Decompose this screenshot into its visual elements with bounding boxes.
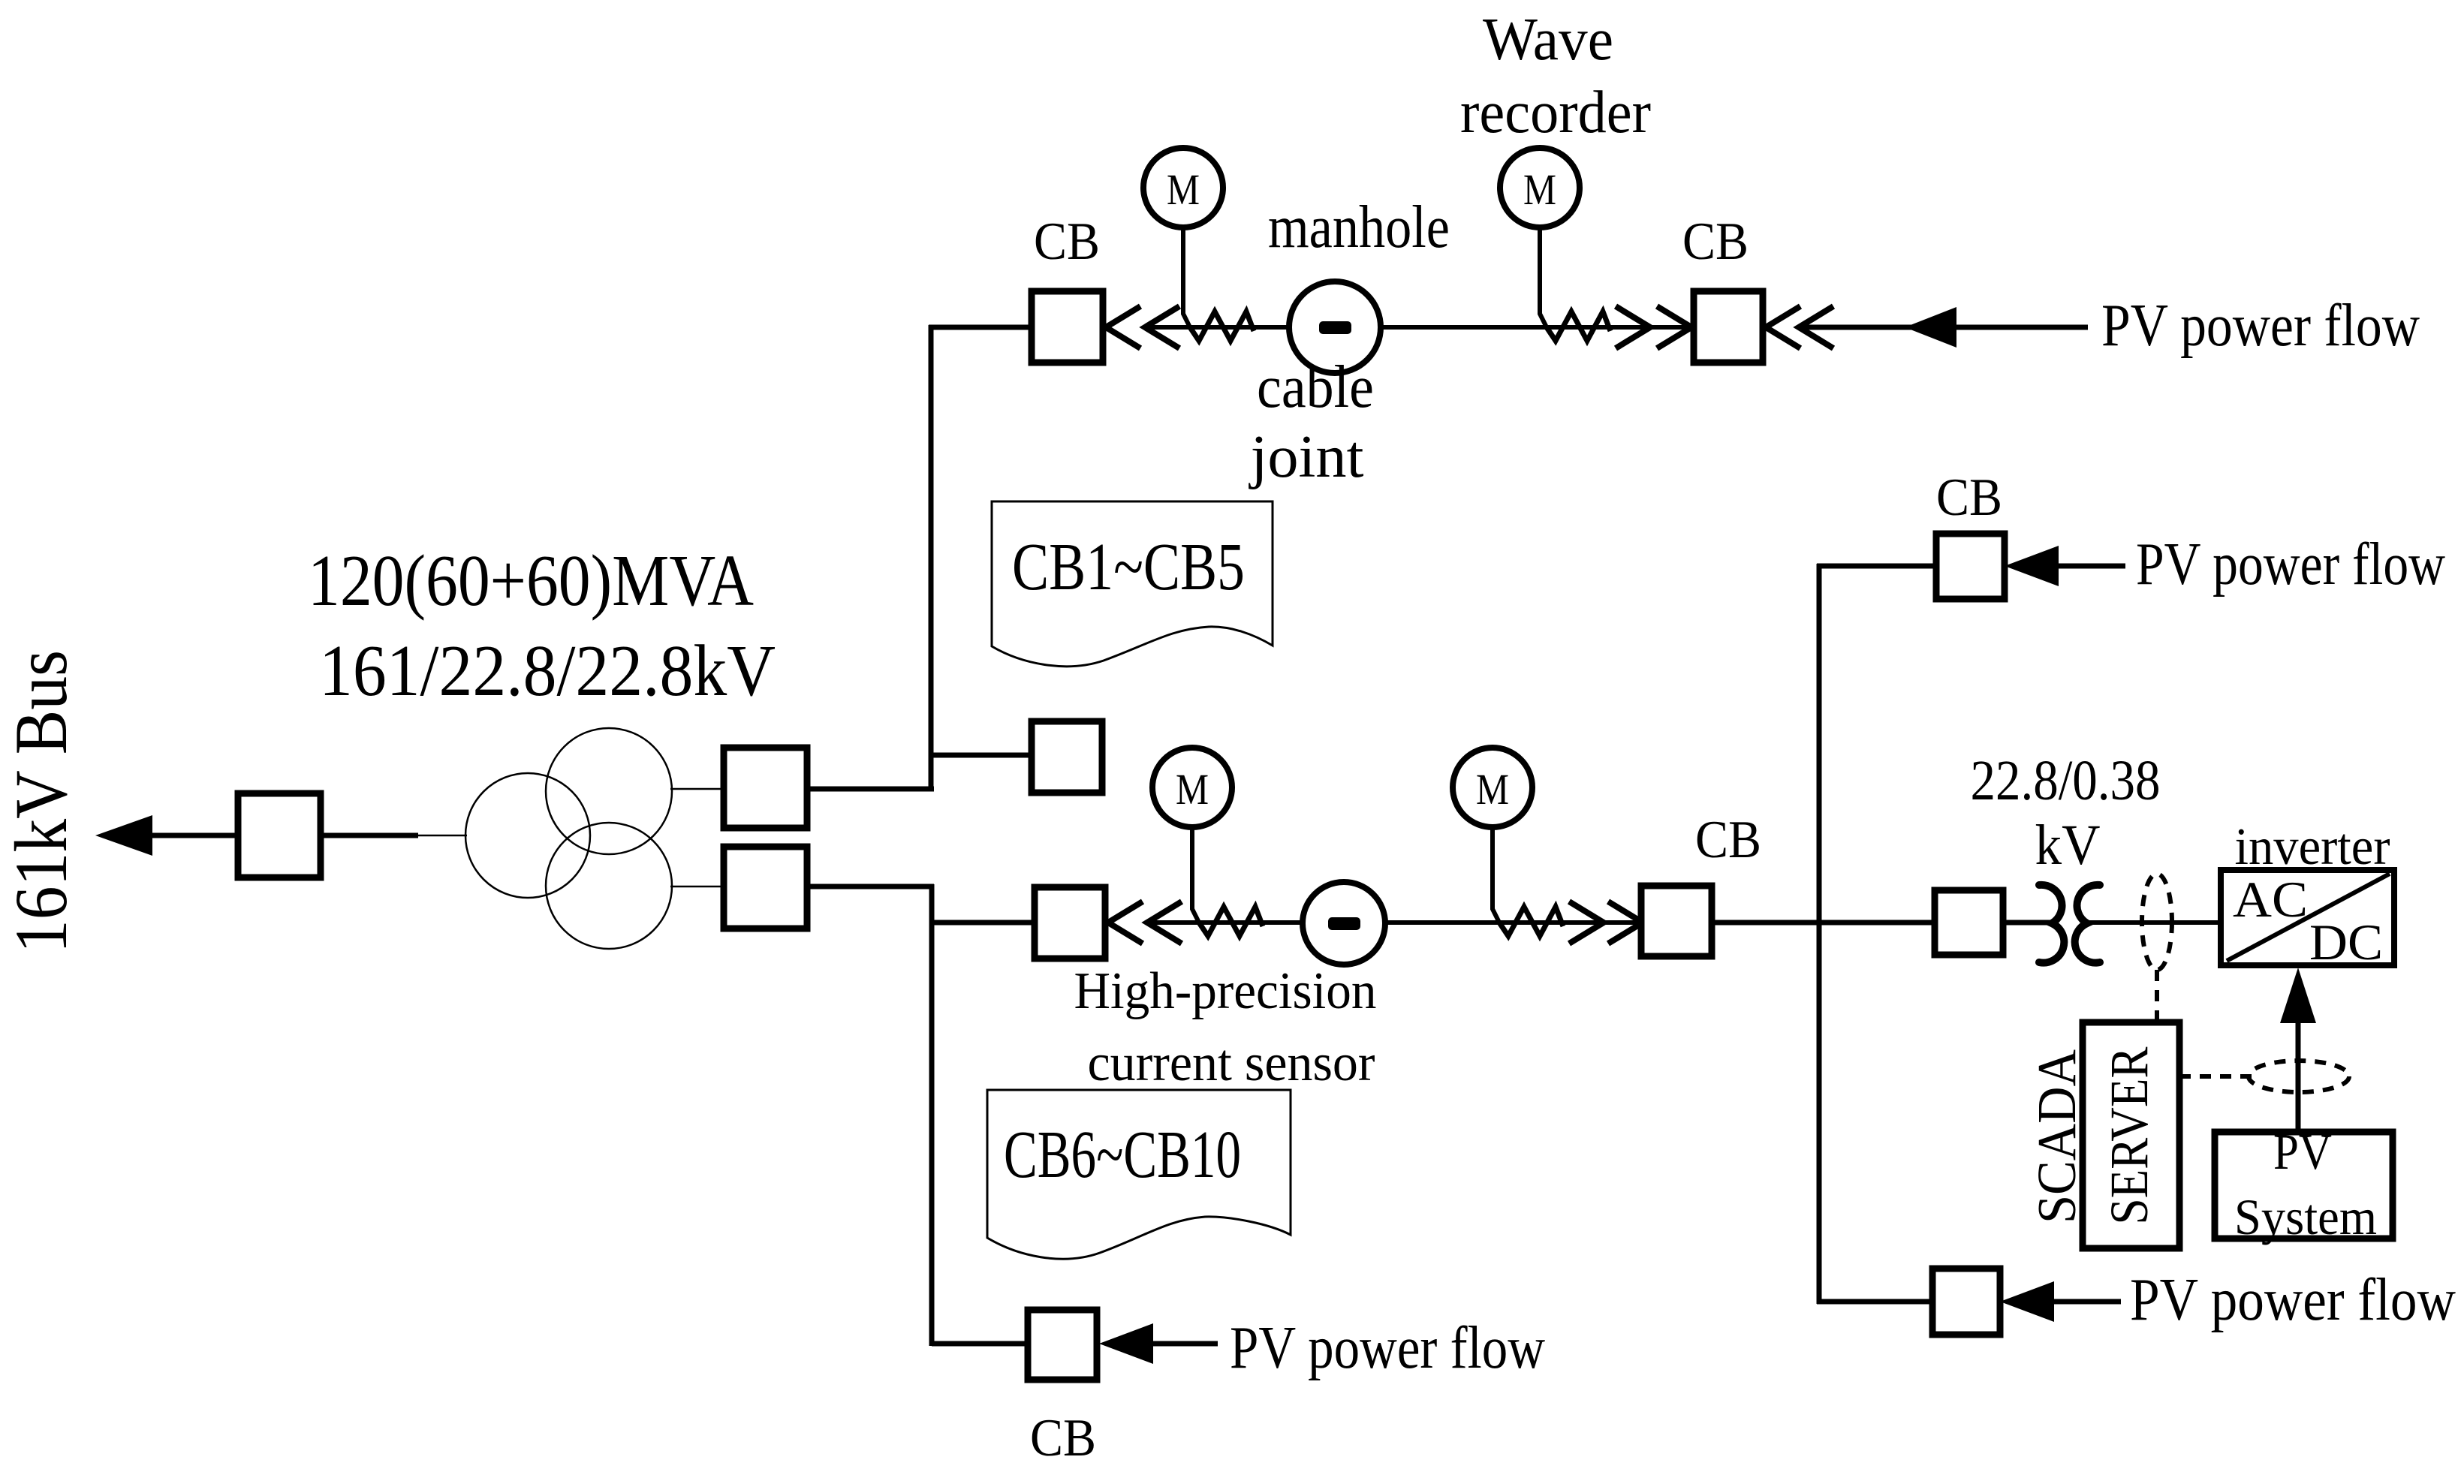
transformer T1 secondary winding 2 xyxy=(546,823,672,949)
wire xyxy=(321,833,418,838)
svg-text:manhole: manhole xyxy=(1268,194,1450,260)
svg-text:PV: PV xyxy=(2273,1123,2332,1180)
inverter diagonal xyxy=(2227,874,2390,961)
meter M4 xyxy=(1453,748,1532,827)
meter M3 xyxy=(1152,748,1232,827)
svg-text:22.8/0.38: 22.8/0.38 xyxy=(1971,749,2161,812)
arrowhead PV power flow bottom xyxy=(1099,1323,1153,1364)
circuit breaker CB feeder2 sending xyxy=(1035,887,1105,959)
dashed ellipse 2 xyxy=(2249,1061,2349,1092)
wire xyxy=(1151,1341,1218,1347)
svg-text:kV: kV xyxy=(2035,814,2101,877)
PV transformer winding right xyxy=(2075,885,2100,963)
svg-text:M: M xyxy=(1167,165,1200,214)
transformer T1 primary winding xyxy=(465,773,590,898)
svg-text:CB6~CB10: CB6~CB10 xyxy=(1004,1118,1241,1192)
meter M2 xyxy=(1500,148,1580,227)
PV System box xyxy=(2215,1132,2393,1239)
meter M1 stem xyxy=(1183,225,1190,327)
circuit breaker CB right upper xyxy=(1936,534,2005,599)
circuit breaker CB feeder1 receiving xyxy=(1694,291,1763,363)
chevron arrows >> xyxy=(1569,902,1643,944)
wire xyxy=(807,884,934,889)
wire xyxy=(1799,325,2088,330)
svg-text:CB: CB xyxy=(1034,212,1100,271)
arrowhead PV power flow top xyxy=(1905,307,1956,348)
wire (thin) xyxy=(670,886,724,888)
svg-text:Wave: Wave xyxy=(1483,7,1613,73)
svg-text:PV power flow: PV power flow xyxy=(2136,531,2445,598)
svg-text:joint: joint xyxy=(1248,424,1363,490)
wire top feeder xyxy=(1146,325,1694,330)
cable joint mark 2 xyxy=(1328,917,1360,930)
wire xyxy=(929,325,1032,330)
circuit breaker (22.8kV winding 2) xyxy=(724,847,807,929)
SCADA server box xyxy=(2083,1022,2179,1248)
CT dashed ellipse xyxy=(2142,874,2172,970)
wire middle feeder xyxy=(1149,920,1641,925)
wire xyxy=(807,787,934,792)
wire xyxy=(1712,920,2053,926)
svg-text:CB: CB xyxy=(1936,468,2002,527)
chevron arrows << xyxy=(1108,902,1182,944)
circuit breaker CB (PV step-up) xyxy=(1935,890,2003,955)
sensor zigzag 3 xyxy=(1199,907,1263,936)
wire trunk 2 xyxy=(929,884,935,1346)
note box CB6~CB10 xyxy=(987,1090,1291,1259)
svg-text:M: M xyxy=(1476,765,1509,814)
wire stub xyxy=(932,920,1035,926)
wire trunk 1 xyxy=(929,325,934,791)
wire xyxy=(932,1341,1028,1347)
svg-text:High-precision: High-precision xyxy=(1074,962,1377,1020)
svg-text:DC: DC xyxy=(2309,914,2383,971)
cable joint mark xyxy=(1319,321,1351,334)
chevron arrows << xyxy=(1106,306,1179,348)
arrowhead PV power flow right lower xyxy=(2000,1281,2054,1322)
svg-text:120(60+60)MVA: 120(60+60)MVA xyxy=(308,540,754,621)
circuit breaker CB bottom xyxy=(1028,1310,1097,1380)
svg-text:System: System xyxy=(2234,1188,2377,1245)
sensor zigzag 2 xyxy=(1547,312,1610,341)
svg-text:CB: CB xyxy=(1695,811,1761,869)
svg-text:PV power flow: PV power flow xyxy=(2130,1267,2456,1333)
svg-text:recorder: recorder xyxy=(1460,80,1651,146)
wire right bus vertical xyxy=(1817,564,1822,1304)
wire xyxy=(2056,564,2125,569)
wire xyxy=(147,833,238,838)
wire (thin) xyxy=(670,788,724,790)
svg-text:M: M xyxy=(1176,765,1209,814)
arrow to 161kV bus xyxy=(95,815,152,856)
svg-text:CB: CB xyxy=(1682,212,1749,271)
circuit breaker CB feeder2 receiving xyxy=(1641,886,1712,956)
svg-text:PV power flow: PV power flow xyxy=(1230,1315,1545,1381)
wire lower branch xyxy=(1817,1299,1932,1305)
arrowhead up to inverter xyxy=(2280,968,2316,1023)
wire PV system to inverter xyxy=(2296,1023,2301,1132)
sensor zigzag 1 xyxy=(1190,312,1254,341)
svg-text:SERVER: SERVER xyxy=(2099,1047,2159,1225)
svg-text:161kV Bus: 161kV Bus xyxy=(0,650,83,953)
circuit breaker (spare feeder) xyxy=(1032,721,1102,793)
arrowhead PV power flow right upper xyxy=(2005,546,2059,586)
wire (thin) xyxy=(417,835,467,837)
sensor zigzag 4 xyxy=(1499,907,1563,936)
PV transformer winding left xyxy=(2039,885,2064,963)
svg-text:cable: cable xyxy=(1257,354,1374,420)
chevron arrows >> xyxy=(1616,306,1691,348)
circuit breaker (22.8kV winding 1) xyxy=(724,748,807,828)
svg-text:current sensor: current sensor xyxy=(1088,1034,1375,1092)
meter M3 stem xyxy=(1192,826,1199,923)
transformer T1 secondary winding 1 xyxy=(546,728,672,854)
manhole cable joint circle xyxy=(1289,281,1381,373)
inverter box xyxy=(2221,870,2394,965)
circuit breaker CB right lower xyxy=(1932,1269,2000,1335)
meter M4 stem xyxy=(1493,826,1499,923)
svg-text:161/22.8/22.8kV: 161/22.8/22.8kV xyxy=(319,631,776,711)
circuit breaker CB feeder1 sending xyxy=(1032,291,1103,363)
wire upper branch xyxy=(1817,564,1936,569)
svg-text:AC: AC xyxy=(2233,871,2308,928)
meter M2 stem xyxy=(1540,225,1547,327)
svg-text:CB: CB xyxy=(1030,1409,1096,1467)
svg-text:SCADA: SCADA xyxy=(2026,1049,2087,1224)
cable joint circle 2 xyxy=(1303,882,1385,965)
note box CB1~CB5 xyxy=(992,501,1273,667)
dashed wire SCADA to PV arrow xyxy=(2179,1074,2252,1079)
svg-text:PV power flow: PV power flow xyxy=(2101,293,2420,359)
wire xyxy=(2052,1299,2121,1305)
chevron arrows << xyxy=(1766,306,1833,348)
wire stub to spare CB xyxy=(931,753,1032,758)
circuit breaker CB (161kV side) xyxy=(238,793,321,877)
meter M1 xyxy=(1143,148,1223,227)
svg-text:CB1~CB5: CB1~CB5 xyxy=(1012,530,1245,604)
dashed wire down to SCADA xyxy=(2155,970,2159,1021)
svg-text:M: M xyxy=(1523,165,1556,214)
wire xyxy=(2086,920,2221,925)
